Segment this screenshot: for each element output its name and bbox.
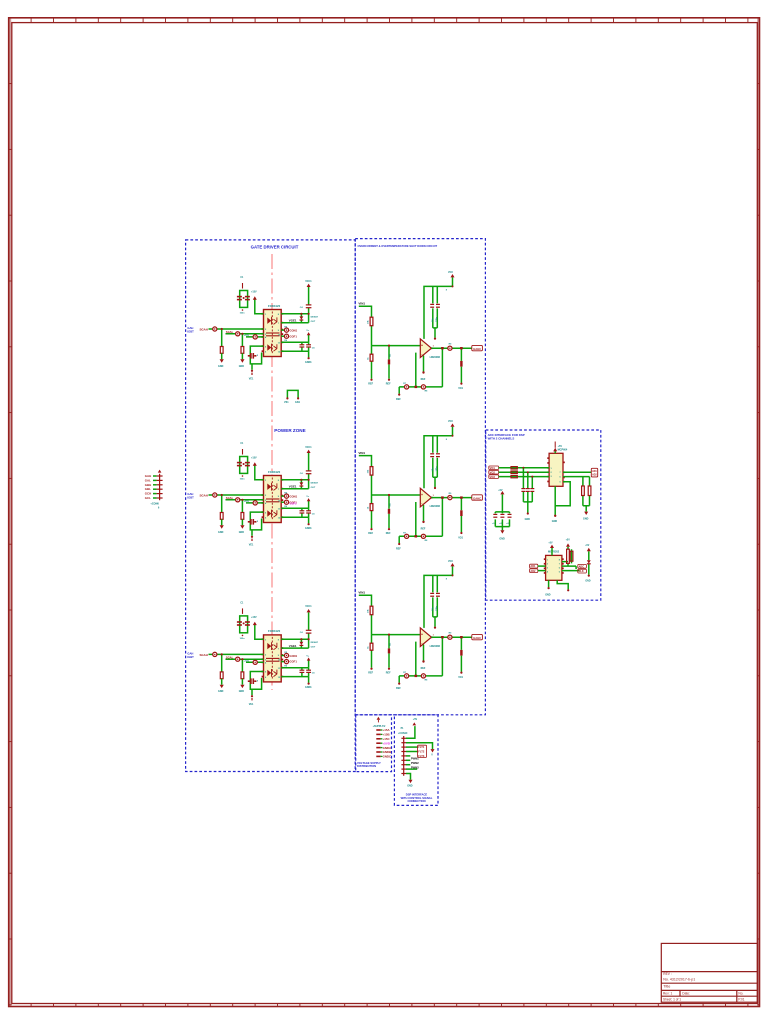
svg-text:GND: GND [499, 538, 505, 541]
svg-text:GND: GND [583, 517, 589, 520]
dsp interface zone box [394, 715, 438, 806]
svg-text:CONNECTION: CONNECTION [407, 799, 425, 803]
supply wire stubs [381, 730, 383, 756]
connector wire stubs [153, 476, 157, 498]
comparator channel 3 [358, 560, 482, 690]
svg-text:6: 6 [158, 508, 160, 510]
svg-text:GNDC: GNDC [383, 755, 392, 759]
gate driver zone box [186, 240, 356, 772]
IC2 bottom ground [545, 580, 569, 596]
op-amp buffer IC U7 [549, 453, 563, 486]
svg-text:GBL: GBL [145, 487, 151, 491]
svg-text:GND: GND [407, 784, 413, 787]
gate driver channel A [187, 277, 318, 380]
svg-text:PWM1: PWM1 [411, 757, 419, 761]
svg-text:P1: P1 [401, 728, 405, 730]
zener right [585, 545, 591, 583]
supply distribution zone box [356, 715, 392, 772]
overcurrent zone box [355, 239, 485, 715]
svg-text:GND: GND [552, 520, 558, 523]
svg-text:+15C: +15C [383, 737, 391, 741]
svg-text:MCP3202: MCP3202 [548, 551, 560, 554]
svg-text:Sheet: 1 of 1: Sheet: 1 of 1 [663, 997, 681, 1001]
left labels [530, 565, 536, 573]
pullup pair [562, 540, 580, 571]
svg-text:+15A: +15A [383, 728, 391, 732]
connector net labels [145, 474, 151, 500]
svg-text:GATE DRIVER CIRCUIT: GATE DRIVER CIRCUIT [251, 244, 299, 249]
svg-text:AD2: AD2 [592, 474, 597, 477]
ADC IC U8 [546, 555, 562, 580]
input wires [499, 468, 549, 477]
svg-text:GOF2: GOF2 [290, 502, 298, 506]
supply net labels [383, 728, 392, 758]
left margin band tint [9, 18, 11, 1005]
V- arrow [431, 749, 435, 752]
input labels [490, 466, 496, 479]
svg-text:GBH: GBH [145, 483, 151, 487]
svg-text:+5V: +5V [585, 545, 590, 547]
svg-text:Title: Title [663, 985, 670, 989]
wires [406, 726, 433, 780]
svg-text:FLT2: FLT2 [418, 750, 425, 754]
svg-text:GND: GND [525, 518, 531, 521]
output wire to flag [563, 471, 591, 473]
resistor network RN1 [511, 467, 517, 478]
svg-text:+5V: +5V [558, 445, 563, 448]
svg-text:GNDB: GNDB [383, 750, 392, 754]
zone boxes (dashed blue) [186, 239, 601, 806]
svg-text:OVERCURRENT & OVERTEMPERATURE: OVERCURRENT & OVERTEMPERATURE SHUT DOWN … [358, 244, 438, 248]
svg-text:WITH 2 CHANNELS: WITH 2 CHANNELS [488, 436, 515, 440]
svg-text:+CON10: +CON10 [398, 732, 408, 735]
ground arrow [409, 780, 413, 783]
gate driver channel B [187, 443, 318, 546]
title block [661, 943, 757, 1002]
svg-text:GND: GND [545, 593, 551, 596]
gate driver channel C [187, 603, 318, 706]
comparator channel 2 [358, 420, 482, 550]
svg-text:P.01: P.01 [738, 997, 744, 1001]
svg-text:PWM3: PWM3 [411, 765, 419, 769]
bypass cap bank [492, 489, 511, 541]
IC bottom ground [552, 482, 570, 523]
+5V feed [554, 451, 556, 453]
svg-text:DISTRIBUTION: DISTRIBUTION [357, 764, 376, 768]
svg-text:REV :: REV : [663, 972, 671, 976]
svg-text:+5V: +5V [548, 542, 553, 544]
svg-text:+15B: +15B [383, 733, 390, 737]
svg-text:POWER ZONE: POWER ZONE [274, 428, 305, 433]
svg-text:+5VD: +5VD [383, 741, 390, 745]
svg-text:No. 4312/2017-b-p1: No. 4312/2017-b-p1 [663, 977, 695, 981]
svg-text:+5V: +5V [413, 718, 418, 721]
svg-text:GCL: GCL [145, 496, 151, 500]
svg-text:AD1: AD1 [592, 470, 597, 473]
svg-text:GN1: GN1 [295, 401, 301, 404]
connector top arrow [158, 470, 162, 473]
connector pins CON6 [157, 474, 163, 500]
+5V arrow [413, 722, 417, 725]
svg-text:GAL: GAL [145, 478, 151, 482]
svg-text:VS1: VS1 [284, 401, 289, 404]
supply arrow [377, 717, 381, 720]
divider resistors right [563, 477, 591, 521]
black signal labels [411, 757, 419, 770]
power zone separator (pink dash-dot) [271, 254, 273, 690]
svg-text:GND: GND [585, 580, 590, 582]
svg-text:GCH: GCH [145, 492, 151, 496]
header pins [401, 736, 406, 776]
right labels [579, 565, 585, 573]
svg-text:Rev: 1: Rev: 1 [663, 992, 672, 996]
input filter caps [521, 467, 534, 521]
jumper staple JP1 [284, 390, 301, 404]
svg-text:GNDA: GNDA [383, 746, 392, 750]
svg-text:FLT1: FLT1 [418, 745, 425, 749]
right margin band tint [757, 18, 758, 1005]
svg-text:No.: No. [738, 992, 743, 996]
supply pin ticks [376, 730, 380, 756]
red signal labels [418, 745, 425, 758]
svg-text:GAH: GAH [145, 474, 151, 478]
svg-text:+5V: +5V [566, 540, 571, 542]
svg-text:+CON6: +CON6 [150, 503, 159, 506]
svg-text:V: V [431, 754, 433, 756]
svg-text:Date:: Date: [682, 992, 690, 996]
svg-text:MCP604: MCP604 [558, 449, 568, 452]
comparator channel 1 [358, 271, 482, 401]
adc interface zone box [486, 430, 601, 600]
svg-text:PWM2: PWM2 [411, 761, 419, 765]
